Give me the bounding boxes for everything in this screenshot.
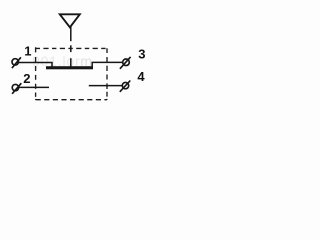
terminal pin 3: [120, 57, 131, 69]
terminal pin 4: [120, 81, 131, 92]
terminal pin 1: [12, 57, 21, 68]
wire antenna feed: [70, 27, 72, 67]
wire pin2: [18, 86, 49, 88]
dashed enclosure right border: [106, 48, 108, 99]
antenna ANT: [60, 14, 80, 27]
wire electrode to pin3: [92, 62, 123, 66]
wire pin1 to electrode: [18, 63, 52, 67]
terminal pin 2: [12, 83, 21, 94]
svg-text:3: 3: [138, 46, 145, 61]
dashed enclosure bottom border: [36, 99, 107, 101]
svg-text:4: 4: [137, 69, 145, 84]
electrode bar: [46, 66, 93, 69]
svg-text:1: 1: [24, 44, 31, 59]
dashed enclosure top border: [36, 47, 107, 49]
wire pin4: [89, 85, 123, 87]
svg-text:2: 2: [23, 71, 30, 86]
dashed enclosure left border: [35, 47, 37, 99]
